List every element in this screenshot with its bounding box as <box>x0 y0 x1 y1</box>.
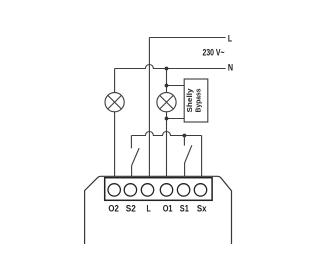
lamp E1 (right) <box>157 93 176 112</box>
terminal S2 <box>124 184 136 196</box>
terminal O1 <box>160 184 172 196</box>
terminal block <box>105 178 212 201</box>
node N/O1 junction <box>165 67 169 71</box>
device outline (Shelly body) <box>85 176 232 244</box>
wire switch bus with hops over L and O1 <box>131 132 201 136</box>
svg-text:S1: S1 <box>180 203 189 213</box>
wire L bus top <box>149 37 225 39</box>
svg-text:230 V~: 230 V~ <box>203 48 225 58</box>
terminal Sx <box>194 184 206 196</box>
wire L feed vertical <box>148 38 150 177</box>
wire bypass bottom branch <box>167 118 185 120</box>
wire O2 drop from N to lamp E2 <box>114 69 116 93</box>
terminal S1 <box>177 184 189 196</box>
svg-text:Sx: Sx <box>197 203 207 213</box>
wire N bus with hop over L feed <box>115 65 226 69</box>
svg-text:O2: O2 <box>108 203 118 213</box>
switch SW2 (above S2) <box>131 136 139 177</box>
svg-text:N: N <box>228 62 233 72</box>
wire O1 lamp to terminal <box>166 112 168 177</box>
wire bypass top branch <box>167 85 185 87</box>
node bypass bottom junction <box>165 117 169 121</box>
switch SW1 (above S1) <box>184 136 192 177</box>
wire O1 drop from N junction to lamp E1 <box>166 69 168 93</box>
svg-text:S2: S2 <box>126 203 136 213</box>
lamp E2 (left) <box>105 93 124 112</box>
terminal O2 <box>108 184 120 196</box>
svg-text:Shelly: Shelly <box>187 88 194 112</box>
svg-text:O1: O1 <box>163 203 173 213</box>
svg-text:L: L <box>147 203 152 213</box>
terminal L <box>141 184 153 196</box>
svg-text:Bypass: Bypass <box>195 88 202 112</box>
svg-text:L: L <box>228 33 233 43</box>
wire Sx drop <box>201 136 203 177</box>
node bypass top junction <box>165 84 169 88</box>
wire O2 lamp to terminal <box>114 112 116 177</box>
Shelly Bypass box U1 <box>184 79 208 122</box>
node S1 bus junction <box>183 134 187 138</box>
